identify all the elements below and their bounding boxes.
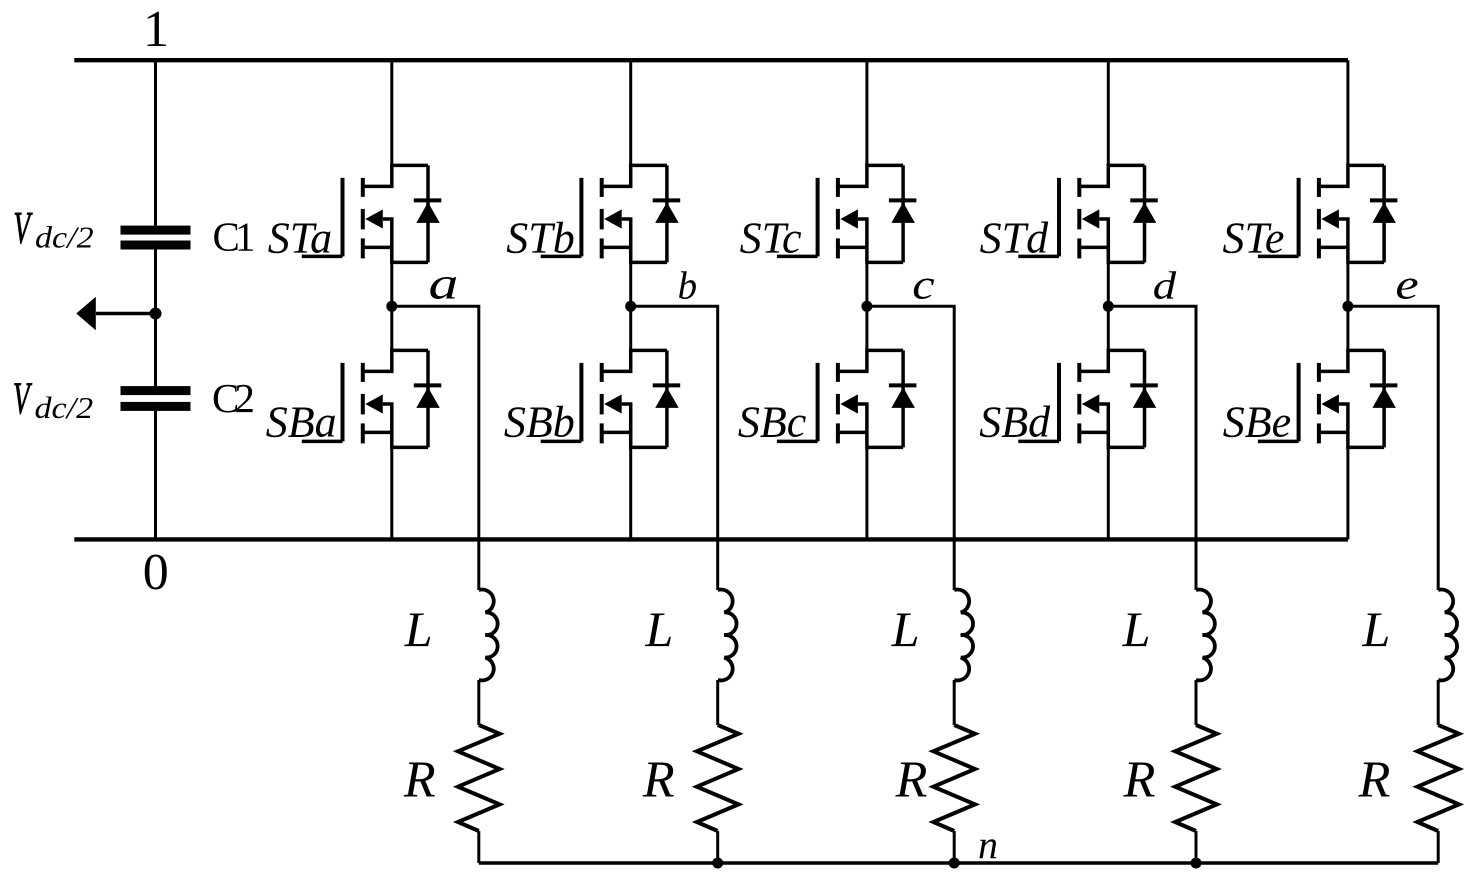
svg-text:c: c [912,262,935,308]
svg-text:V: V [13,375,33,425]
wire : inductor to resistor (phase e) [1437,680,1440,725]
wire : inductor to resistor (phase a) [477,680,480,725]
wire : midpoint arrow lead [96,312,156,316]
svg-text:C1: C1 [213,214,254,260]
wire : node c to load branch [867,306,954,590]
wire : top rail to STa drain [390,60,393,165]
node 0 : bottom DC rail [74,537,1348,541]
svg-text:R: R [1123,752,1156,809]
svg-text:SBb: SBb [504,398,575,447]
arrow : midpoint reference arrowhead [76,297,96,331]
wire : STd source to node d [1107,262,1110,306]
wire : node a to load branch [392,306,479,590]
svg-text:L: L [891,601,920,657]
wire : top rail to STe drain [1346,60,1349,165]
wire : resistor to neutral wire (phase e) [1437,831,1440,863]
svg-text:L: L [1361,601,1390,657]
svg-text:STb: STb [506,214,574,263]
inductor L (phase b) [718,590,737,681]
node a junction dot [386,301,397,312]
node : neutral junction dot (phase b) [712,858,723,869]
svg-text:R: R [1358,752,1391,809]
node : neutral junction dot (phase c) [949,858,960,869]
inductor L (phase d) [1196,590,1215,681]
wire : top rail to C1 [154,60,157,225]
svg-text:STa: STa [268,214,332,263]
wire : STa source to node a [390,262,393,306]
wire : inductor to resistor (phase b) [716,680,719,725]
svg-text:STe: STe [1223,214,1285,263]
transistor STc (top MOSFET with body diode) [777,165,917,262]
svg-text:C2: C2 [212,375,253,421]
svg-text:SBa: SBa [266,398,337,447]
wire : top rail to STb drain [629,60,632,165]
svg-text:SBe: SBe [1223,398,1291,447]
svg-text:L: L [1122,601,1151,657]
wire : top rail to STc drain [865,60,868,165]
svg-text:STc: STc [740,214,802,263]
inductor L (phase e) [1438,590,1457,681]
wire : SBb drain to node b [629,306,632,350]
wire : SBb source to bottom rail [629,447,632,539]
svg-text:R: R [895,752,928,809]
node d junction dot [1103,301,1114,312]
wire : SBa drain to node a [390,306,393,350]
svg-text:SBd: SBd [979,398,1051,447]
wire : inductor to resistor (phase c) [953,680,956,725]
resistor R (phase a) [458,725,500,831]
wire : STe source to node e [1346,262,1349,306]
transistor STa (top MOSFET with body diode) [302,165,442,262]
resistor R (phase e) [1417,725,1459,831]
svg-text:1: 1 [143,1,169,58]
wire : node e to load branch [1348,306,1438,590]
wire : top rail to STd drain [1107,60,1110,165]
node b junction dot [625,301,636,312]
transistor SBe (bottom MOSFET with body diode) [1258,350,1398,447]
capacitor C1 [121,226,191,250]
wire : resistor to neutral wire (phase c) [953,831,956,863]
svg-text:R: R [642,752,675,809]
node e junction dot [1342,301,1353,312]
wire : SBa source to bottom rail [390,447,393,539]
wire : STc source to node c [865,262,868,306]
svg-text:L: L [404,601,433,657]
node : DC-link midpoint junction dot [150,308,162,320]
capacitor C2 [121,386,191,411]
wire : resistor to neutral wire (phase a) [477,831,480,863]
wire : inductor to resistor (phase d) [1195,680,1198,725]
wire : node b to load branch [631,306,718,590]
wire : resistor to neutral wire (phase b) [716,831,719,863]
transistor STb (top MOSFET with body diode) [541,165,681,262]
svg-text:0: 0 [143,544,169,601]
inductor L (phase c) [954,590,973,681]
svg-text:a: a [428,257,458,309]
transistor SBa (bottom MOSFET with body diode) [302,350,442,447]
svg-text:n: n [978,822,998,867]
svg-text:dc/2: dc/2 [35,221,94,255]
wire : SBd drain to node d [1107,306,1110,350]
svg-text:V: V [14,204,34,254]
wire : SBc source to bottom rail [865,447,868,539]
wire : C1 to midpoint node [154,250,157,387]
svg-text:L: L [644,601,673,657]
transistor STe (top MOSFET with body diode) [1258,165,1398,262]
svg-text:R: R [403,752,436,809]
resistor R (phase c) [933,725,975,831]
node : neutral junction dot (phase d) [1191,858,1202,869]
svg-text:e: e [1395,262,1418,308]
svg-text:b: b [678,265,698,308]
wire : SBc drain to node c [865,306,868,350]
wire : SBd source to bottom rail [1107,447,1110,539]
wire : node d to load branch [1108,306,1196,590]
svg-text:STd: STd [980,214,1049,263]
wire : neutral bus n [479,861,1438,864]
node 1 : top DC rail [74,58,1348,62]
transistor SBb (bottom MOSFET with body diode) [541,350,681,447]
wire : C2 to bottom rail [154,411,157,540]
wire : SBe drain to node e [1346,306,1349,350]
inductor L (phase a) [479,590,498,681]
wire : SBe source to bottom rail [1346,447,1349,539]
svg-text:SBc: SBc [738,398,807,447]
transistor SBc (bottom MOSFET with body diode) [777,350,917,447]
node c junction dot [861,301,872,312]
wire : resistor to neutral wire (phase d) [1195,831,1198,863]
svg-text:dc/2: dc/2 [35,391,94,425]
resistor R (phase b) [697,725,739,831]
transistor STd (top MOSFET with body diode) [1018,165,1158,262]
svg-text:d: d [1153,265,1177,308]
transistor SBd (bottom MOSFET with body diode) [1018,350,1158,447]
resistor R (phase d) [1175,725,1217,831]
wire : STb source to node b [629,262,632,306]
